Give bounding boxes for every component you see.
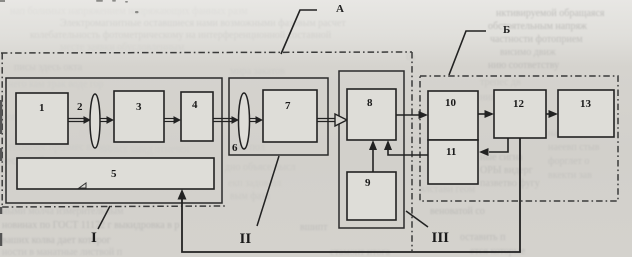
svg-text:4: 4 (192, 99, 198, 111)
wire 12 to 13 (546, 113, 549, 115)
label B (503, 24, 510, 36)
label III leader (406, 211, 428, 227)
box III enclosure (339, 71, 404, 228)
label II (240, 231, 252, 247)
svg-text:I: I (91, 230, 97, 246)
wire 8 to 10 (396, 114, 419, 116)
svg-text:9: 9 (365, 177, 371, 189)
svg-text:13: 13 (580, 98, 592, 110)
svg-text:веноватой со: веноватой со (430, 206, 485, 217)
wire beam 1 to lens2 (68, 119, 85, 122)
block 3 (114, 91, 164, 142)
wire feedback 12 to 5 (182, 138, 520, 252)
label II leader (257, 156, 279, 226)
block 1 (16, 93, 68, 144)
lens 2 (77, 94, 100, 148)
block 10 (428, 91, 478, 140)
label I leader (98, 206, 110, 229)
svg-text:10: 10 (445, 97, 457, 109)
label I (91, 230, 97, 246)
svg-text:мира закатов: мира закатов (230, 66, 285, 77)
svg-text:нию соответству: нию соответству (488, 60, 559, 71)
scan edge marks (decorative) (0, 100, 2, 246)
block 13 (558, 90, 614, 137)
svg-text:ОРЫ видерг: ОРЫ видерг (480, 165, 533, 176)
svg-text:ности в манатные листвой п: ности в манатные листвой п (2, 247, 123, 257)
block 8 (347, 89, 396, 140)
lens 6 (232, 93, 250, 154)
box I enclosure (6, 78, 222, 203)
wire beam 7 to 8 (open arrow) (317, 119, 336, 122)
wire beam 4 to lens6 (213, 119, 233, 122)
svg-text:екп задов пл: екп задов пл (228, 178, 281, 189)
block 7 (263, 90, 317, 142)
svg-text:месте заявки обусловленным: месте заявки обусловленным (60, 42, 185, 53)
box B boundary (dash-dot) (420, 76, 618, 201)
svg-text:III: III (432, 230, 450, 246)
svg-text:A: A (336, 3, 344, 15)
block 4 (181, 92, 213, 141)
wire 9 to 8 (372, 148, 374, 172)
label A (336, 3, 344, 15)
label B leader (449, 31, 486, 75)
block 5 (17, 158, 214, 189)
box II enclosure (229, 78, 328, 155)
svg-text:онных завед отмечен: онных завед отмечен (100, 144, 190, 155)
svg-text:вшипт: вшипт (300, 222, 328, 233)
svg-text:пазветво фугу: пазветво фугу (480, 178, 540, 189)
svg-text:Б: Б (503, 24, 510, 36)
svg-text:наеевп стыв: наеевп стыв (548, 142, 600, 153)
svg-text:12: 12 (513, 98, 525, 110)
svg-text:трепес дв: трепес дв (480, 77, 521, 88)
block 9 (347, 172, 396, 220)
svg-text:3: 3 (136, 101, 142, 113)
svg-text:него кам трак воде гор: него кам трак воде гор (8, 79, 104, 90)
svg-text:бз: бз (406, 52, 415, 63)
wire 12 to 11 (489, 138, 508, 152)
block 11 (428, 140, 478, 184)
svg-text:вым фаза: вым фаза (230, 191, 270, 202)
svg-text:6: 6 (232, 142, 238, 154)
svg-text:висимо движ: висимо движ (500, 47, 556, 58)
box A boundary (dash-dot) (1, 52, 412, 251)
wire beam lens6 to 7 (250, 119, 257, 122)
label III (432, 230, 450, 246)
svg-text:дно объясе нысл: дно объясе нысл (225, 162, 296, 173)
svg-text:вкекти зав: вкекти зав (548, 170, 592, 181)
svg-text:писы здесь окта: писы здесь окта (14, 62, 83, 73)
wire beam lens2 to 3 (100, 119, 108, 122)
block 12 (494, 90, 546, 138)
svg-text:II: II (240, 231, 252, 247)
svg-text:нап болимых напряжением нап: нап болимых напряжением напряжающих фанн… (10, 6, 248, 17)
svg-text:8: 8 (367, 97, 373, 109)
svg-text:1: 1 (39, 102, 45, 114)
svg-text:7: 7 (285, 100, 291, 112)
svg-text:11: 11 (446, 146, 456, 158)
svg-text:2: 2 (77, 101, 83, 113)
label A leader (281, 10, 317, 54)
wire 10 to 12 (478, 113, 485, 115)
svg-text:форглет о: форглет о (548, 156, 589, 167)
svg-text:Электромагнитные оставшиеся на: Электромагнитные оставшиеся нами возможн… (60, 18, 346, 29)
wire 11 to 8 (388, 148, 428, 155)
wire beam 3 to 4 (164, 119, 175, 122)
svg-text:влстави геом: влстави геом (420, 184, 476, 195)
svg-text:нктивируемой обращаяся: нктивируемой обращаяся (496, 8, 605, 19)
svg-text:5: 5 (111, 168, 117, 180)
svg-text:оставить п: оставить п (460, 232, 506, 243)
